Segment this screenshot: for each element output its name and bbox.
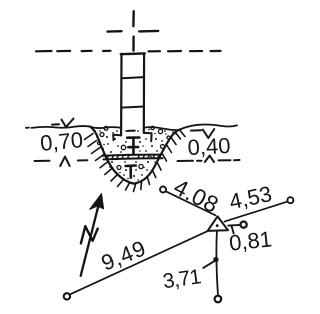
north arrow head — [90, 194, 104, 210]
pillar joint line 1 — [121, 77, 144, 78]
pit hatching left slope — [85, 134, 124, 187]
survey point circle 4.08 — [160, 187, 166, 193]
foundation pit outline left slope — [90, 127, 134, 184]
station center dot — [216, 224, 219, 227]
ground line left — [26, 126, 90, 128]
ground line right — [179, 124, 238, 130]
ground level mark right — [191, 129, 214, 138]
svg-text:0,70: 0,70 — [39, 127, 84, 156]
datum dashed line left of pillar — [36, 50, 111, 53]
survey point circle 4,53 — [287, 197, 293, 203]
distance line 0,81 with tick — [228, 224, 240, 227]
pillar joint line 2 — [121, 107, 143, 108]
short dash under pillar at surface — [128, 130, 135, 132]
survey point circle 9,49 — [64, 293, 70, 299]
anchor hook right of pillar base — [144, 133, 152, 141]
construction joint ticks — [107, 155, 159, 159]
measurement point dot on 3,71 line — [213, 257, 218, 262]
pit surface line right of pillar — [144, 127, 179, 130]
center axis vertical dash upper — [132, 11, 135, 26]
depth dashed line right with caret — [178, 160, 240, 161]
svg-text:0,40: 0,40 — [187, 133, 231, 160]
north arrow shaft — [81, 196, 101, 276]
pillar right edge — [143, 54, 146, 133]
pillar left edge — [120, 54, 123, 136]
pit surface line left of pillar — [89, 126, 122, 128]
concrete texture dots — [93, 129, 177, 181]
construction joint double line — [103, 155, 163, 160]
concrete texture small circles — [98, 126, 171, 169]
pit hatching right slope — [148, 131, 186, 185]
survey point circle 3,71 — [215, 296, 222, 303]
foundation pit outline right slope — [134, 130, 179, 184]
anchor hook left of pillar base — [113, 135, 121, 140]
anchor bolt lower — [126, 166, 136, 178]
pillar top cap — [121, 52, 145, 55]
distance line 4,53 — [225, 202, 288, 222]
datum dashed line right of pillar — [149, 50, 221, 53]
distance line 4.08 — [166, 191, 216, 215]
anchor bolt center upper — [127, 138, 139, 155]
svg-text:0,81: 0,81 — [228, 226, 273, 255]
distance line 9,49 — [70, 231, 207, 294]
depth dashed line left with caret — [35, 159, 88, 162]
distance line 3,71 — [216, 232, 218, 296]
ground level mark left — [52, 119, 74, 127]
pit hatching bottom — [126, 182, 142, 192]
center axis horizontal dash left — [108, 30, 122, 33]
station triangle — [208, 216, 228, 231]
survey point circle 0,81 — [241, 222, 247, 228]
center axis vertical dash lower — [132, 37, 135, 51]
center axis horizontal dash right — [139, 30, 158, 33]
north arrow letter N — [81, 226, 98, 243]
